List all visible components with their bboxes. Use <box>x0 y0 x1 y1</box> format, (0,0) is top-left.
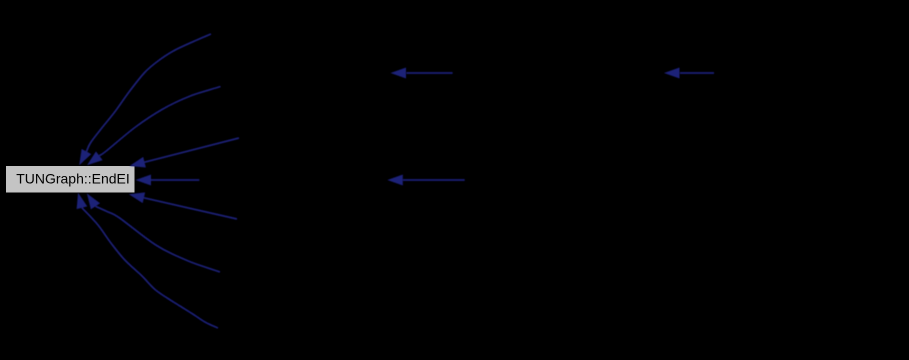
edge caller4 horizontal line (row-4 caller to EndEI) <box>150 179 199 181</box>
arrowhead of third-level row-1 edge <box>664 68 680 79</box>
edge caller2 spline (row-2 caller to EndEI) <box>99 87 220 156</box>
arrowhead of edge caller3 <box>128 157 146 171</box>
arrowhead of edge caller7 <box>73 191 87 209</box>
edge caller6 spline (row-6 caller to EndEI) <box>96 206 221 272</box>
edge caller3 line (row-3 caller to EndEI) <box>145 138 240 162</box>
svg-text:TUNGraph::EndEI: TUNGraph::EndEI <box>16 170 130 186</box>
edge second-level caller to row-1 caller (horizontal) <box>407 72 453 74</box>
node TUNGraph::EndEI (central callee box) <box>5 165 135 193</box>
arrowhead of edge caller6 <box>82 190 100 209</box>
arrowhead of second-level row-1 edge <box>391 68 407 79</box>
edge caller5 line (row-5 caller to EndEI) <box>144 198 237 219</box>
arrowhead of edge caller5 <box>128 189 146 203</box>
arrowhead of edge caller1 <box>74 149 91 168</box>
edge caller1 spline (row-1 caller to EndEI) <box>87 34 212 152</box>
arrowhead of edge caller2 <box>84 151 103 169</box>
arrowhead of edge caller4 <box>136 175 152 186</box>
arrowhead of second-level row-4 edge <box>387 175 403 186</box>
edge caller7 spline (row-7 caller to EndEI) <box>82 208 218 328</box>
edge third-level caller to second-level caller (horizontal) <box>680 72 714 74</box>
edge second-level caller to row-4 caller (horizontal) <box>403 179 465 181</box>
